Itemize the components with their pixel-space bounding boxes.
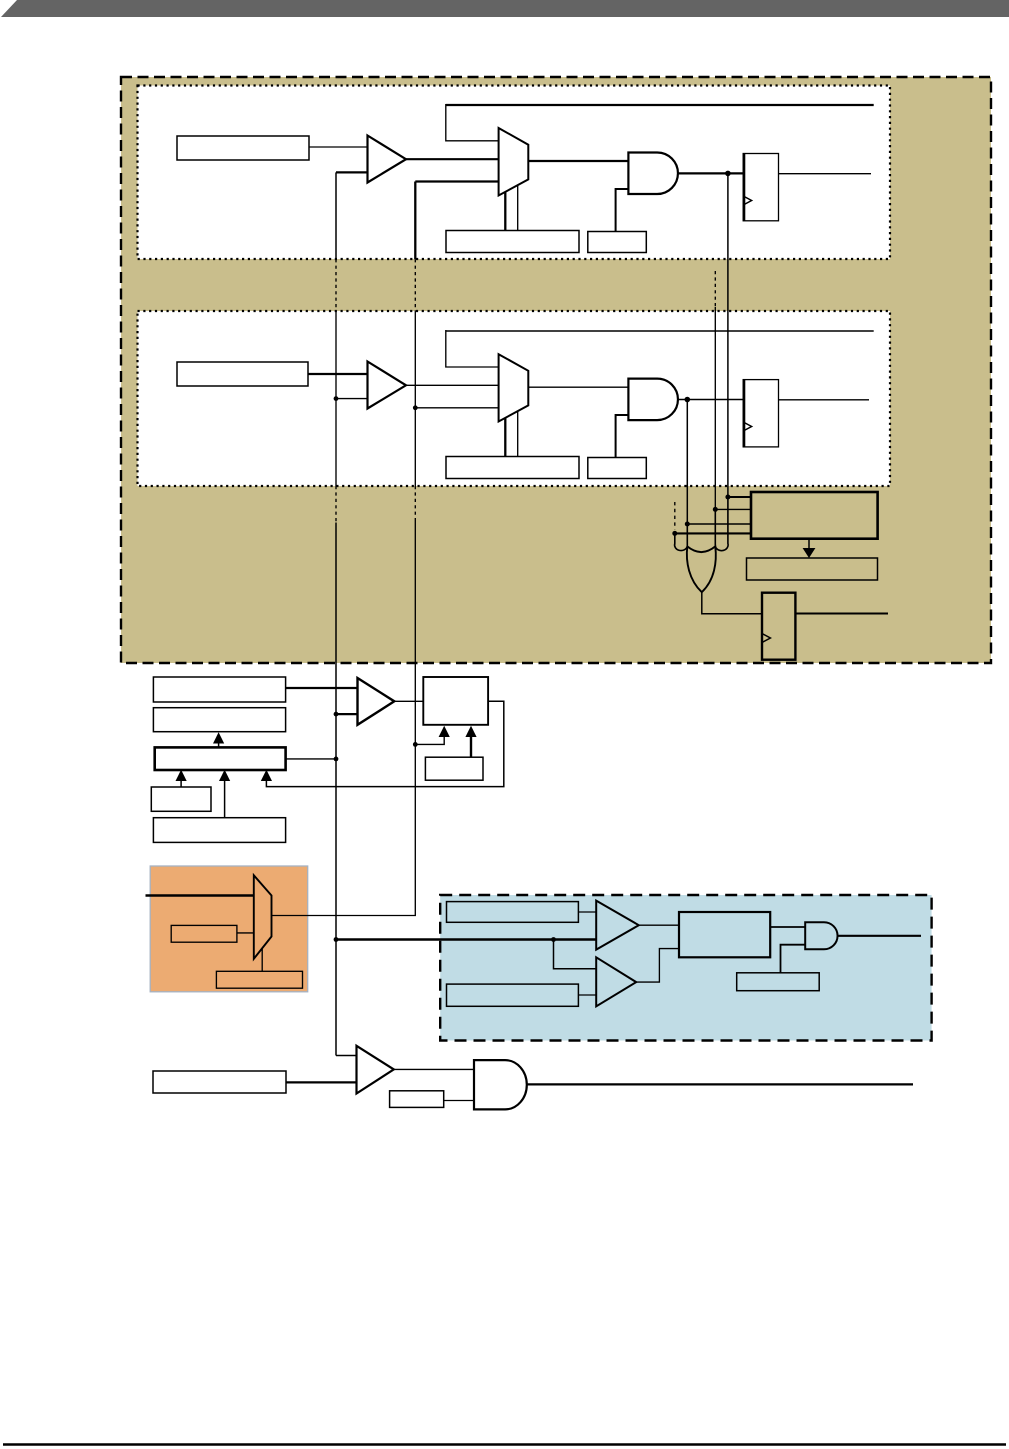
and gate A1 [628,153,678,195]
wire int3 to request box [675,532,751,534]
buffer U8 [596,957,636,1006]
wire select to F arrow [415,737,444,745]
channel 0 box [138,86,891,260]
threshold box 2 [447,984,579,1006]
wire clock into buffer2 [336,398,368,400]
wire clock net into detector [336,938,596,940]
wire or input stubs [686,524,688,546]
wire clock net vertical row1 segment [335,172,337,259]
arrowhead to mask box [803,548,816,558]
wire tri1 to counter box [638,924,679,926]
wire ff2 output [779,399,870,401]
interrupt request box [751,492,878,539]
wire select net dashed gap2 [414,486,416,520]
mux U4 [499,354,529,421]
wire branch to tri2 [554,940,597,969]
wire G to F arrow [470,737,472,758]
wire buffer to box F [393,700,423,702]
wire mux2 to and2 [528,386,628,388]
wire enable into and2 [616,415,629,458]
wire mux1 lower input [415,180,498,182]
wire enable box to and4 [444,1100,475,1102]
wire vertical channel2 continuation [714,271,716,307]
clock source box A [153,677,285,702]
wire hook or input right [715,497,728,551]
wire clock net dashed gap2 [335,486,337,523]
wire C to B arrow [218,743,220,748]
wire buffer1 to mux1 [405,158,499,160]
register box row2 [177,362,308,386]
wire boxA to mid buffer [286,687,358,689]
node clock net tap [334,937,339,942]
wire feedback row1 [446,104,874,106]
select register box in select block [216,971,302,988]
node int0 [725,495,730,500]
buffer U3 [368,362,407,409]
wire mux1 to and1 [528,160,628,162]
clock mark FF3 [762,634,770,643]
wire int2 to request box [715,508,751,510]
wire F feedback to C [266,701,503,786]
wire and1 to ff1 [678,172,743,174]
wire feedback row2 [446,330,874,332]
buffer U1 [368,136,407,183]
wire tri2 to counter box [635,949,679,983]
wire reg2 to buffer2 [308,373,368,375]
wire divider to mux3 [237,932,254,934]
prescaler box B [153,708,285,732]
page header bar [1,0,1009,17]
wire int0 to request box [728,496,751,498]
and gate A4 [474,1060,527,1109]
wire select net row2 segment [414,311,416,486]
flip-flop FF2 [743,380,778,447]
wire clock net dashed gap1 [335,259,337,311]
output enable box [390,1091,444,1108]
wire C output to clock net [286,758,336,760]
wire and4 output [527,1083,913,1085]
arrowhead E into C [219,770,230,781]
mux U2 [499,128,529,196]
wire box to buffer4 [286,1081,357,1083]
buffer U7 [596,901,639,950]
node row2 output [685,397,691,403]
and gate A3 [805,922,837,949]
arrowhead G into F [465,726,476,737]
enable box detector [737,973,820,991]
wire select net dashed gap1 [414,259,416,311]
arrowhead D into C [176,770,187,781]
wire mux1 select lines [504,192,506,231]
mode register box row1 [446,231,579,253]
wire request box to mask box [808,539,810,550]
node C output on clock net [334,757,339,762]
wire clock hook into buffer1 [336,171,368,173]
wire select net long vertical [414,520,416,744]
page footer rule [3,1443,1006,1445]
counter box F [423,677,488,725]
divider box in select block [171,925,237,942]
wire mux3 select [261,948,263,972]
wire and3 output [838,935,922,937]
source box D [151,787,211,811]
flip-flop FF1 [743,154,778,221]
mask register box [747,558,878,580]
control register box C [155,747,286,770]
buffer U5 [358,678,395,725]
wire mux3 output to select net [272,744,416,915]
node buffer2 clock tap [334,396,339,401]
clock mark FF2 [743,422,751,431]
wire enable to and3 [781,945,806,973]
output register box [153,1071,286,1093]
wire box2 to tri2 [578,994,596,996]
wire ff3 output [795,613,888,615]
node detector branch [551,937,556,942]
detector counter box [679,912,770,957]
wire hook or input left [675,533,688,550]
or gate O1 [687,546,716,592]
arrowhead select into F [439,726,450,737]
mode register box row2 [446,457,579,479]
channel 1 box [138,311,891,486]
source box E [153,818,285,843]
wire buffer2 to mux2 [405,384,499,386]
wire clock net long vertical [336,523,357,1056]
and gate A2 [628,379,678,421]
node row1 output [725,171,731,177]
wire D to C arrow [180,780,182,787]
clock select block [150,866,308,992]
node int2 [713,507,718,512]
wire vertical from row1 output [727,173,729,497]
wire and2 to ff2 [678,399,743,401]
node int3 [672,531,677,536]
node select tap for F [413,742,418,747]
clock mark FF1 [743,196,751,205]
wire mux2 select lines [504,418,506,457]
register box row1 [177,136,309,160]
buffer U9 [357,1046,394,1094]
wire clock into mid buffer [336,713,358,715]
wire enable into and1 [616,189,629,232]
mux U6 [254,875,272,959]
enable box row1 [588,232,647,253]
wire int1 to request box [687,523,751,525]
wire clock net row2 segment [335,311,337,486]
wire reg1 to buffer1 [309,146,368,148]
arrowhead into box B [213,732,224,743]
wire mux2 lower input [415,407,498,409]
detector block [440,895,931,1041]
wire vertical channel3 continuation [674,502,676,530]
wire box1 to tri1 [578,911,596,913]
node int1 [685,522,690,527]
wire external clock input [146,894,254,896]
node mid buffer clock tap [334,712,339,717]
compare box G [425,757,483,780]
wire select net vertical row1 segment [414,182,416,260]
node mux2 lower tap [413,405,418,410]
flip-flop FF3 [762,593,795,660]
tan unit block [121,77,991,663]
threshold box 1 [447,902,579,923]
wire ff1 output [779,173,872,175]
wire buffer4 to and4 [393,1068,475,1070]
arrowhead feedback into C [261,770,272,781]
wire counter to and3 [770,926,805,928]
wire or output to ff3 [702,592,762,614]
wire vertical from row2 output [686,400,688,525]
enable box row2 [588,458,647,479]
wire E to C arrow [224,780,226,818]
